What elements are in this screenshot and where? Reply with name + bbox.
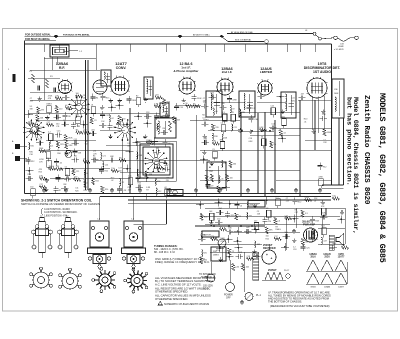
svg-text:C11: C11: [56, 126, 59, 128]
svg-text:.02: .02: [111, 118, 114, 120]
svg-text:150: 150: [217, 218, 220, 220]
svg-text:C17: C17: [47, 122, 50, 124]
svg-text:C25: C25: [128, 176, 131, 178]
svg-text:C30: C30: [83, 130, 86, 132]
svg-text:R15: R15: [106, 97, 109, 99]
svg-text:R12: R12: [211, 93, 214, 95]
svg-text:2.2: 2.2: [252, 108, 255, 110]
svg-text:R15: R15: [241, 112, 244, 114]
svg-text:R25: R25: [60, 144, 63, 146]
svg-text:C9: C9: [211, 186, 213, 188]
svg-text:Zenith Radio: Zenith Radio: [362, 95, 370, 148]
svg-text:R9: R9: [119, 157, 121, 159]
svg-text:L6: L6: [240, 205, 242, 207]
svg-text:R15: R15: [39, 172, 42, 174]
svg-text:.005: .005: [245, 266, 249, 268]
svg-text:BUILT-IN AERIAL: BUILT-IN AERIAL: [235, 39, 252, 42]
svg-text:.002: .002: [127, 190, 131, 192]
svg-text:C25: C25: [57, 131, 60, 133]
svg-text:100: 100: [74, 156, 77, 158]
svg-text:L6: L6: [221, 123, 223, 125]
svg-text:L6: L6: [314, 201, 316, 203]
svg-text:R9: R9: [66, 175, 68, 177]
svg-text:330K: 330K: [327, 132, 332, 134]
svg-text:L6: L6: [278, 220, 280, 222]
svg-text:SHOWN NO. 2-1 SWITCH ORIENTATI: SHOWN NO. 2-1 SWITCH ORIENTATION COIL: [21, 199, 92, 203]
svg-text:but has phono section.: but has phono section.: [345, 97, 353, 186]
svg-text:.05: .05: [221, 179, 224, 181]
svg-text:100: 100: [76, 93, 79, 95]
svg-text:C18: C18: [146, 112, 149, 114]
svg-text:.047: .047: [323, 240, 327, 242]
svg-text:C30: C30: [254, 119, 257, 121]
svg-text:2.2: 2.2: [200, 235, 203, 237]
svg-text:.05: .05: [158, 126, 161, 128]
svg-text:C14: C14: [105, 165, 108, 167]
svg-text:C36: C36: [334, 89, 337, 91]
svg-text:.01: .01: [91, 105, 94, 107]
svg-text:560: 560: [285, 232, 288, 234]
svg-text:C12: C12: [158, 191, 161, 193]
svg-text:OSC: OSC: [209, 171, 214, 173]
svg-text:2525GT: 2525GT: [268, 269, 277, 272]
svg-text:25Z6: 25Z6: [324, 256, 330, 258]
svg-text:R.F.: R.F.: [59, 66, 65, 70]
svg-text:R18: R18: [204, 216, 207, 218]
svg-text:C5: C5: [51, 145, 53, 147]
svg-text:R7: R7: [139, 172, 141, 174]
svg-text:A1: A1: [209, 166, 211, 169]
svg-text:C9: C9: [266, 208, 268, 210]
svg-text:.005: .005: [281, 116, 285, 118]
svg-text:R12: R12: [122, 124, 125, 126]
svg-text:R2: R2: [76, 130, 78, 132]
svg-text:C17: C17: [254, 220, 257, 222]
svg-text:35L6: 35L6: [310, 256, 316, 258]
svg-text:1,800 POSITION - F.M.: 1,800 POSITION - F.M.: [44, 215, 68, 217]
svg-text:R22: R22: [266, 238, 269, 240]
svg-text:56: 56: [261, 137, 263, 139]
svg-text:L6: L6: [65, 105, 67, 107]
svg-text:R12: R12: [323, 166, 326, 168]
svg-text:R5: R5: [274, 144, 276, 146]
svg-text:.01: .01: [86, 173, 89, 175]
svg-text:.047: .047: [165, 165, 169, 167]
svg-text:R18: R18: [315, 220, 318, 222]
svg-text:OFF: OFF: [226, 298, 231, 300]
svg-text:.002: .002: [74, 177, 78, 179]
svg-text:R7: R7: [220, 226, 222, 228]
svg-text:C9: C9: [232, 108, 234, 110]
svg-text:R30: R30: [122, 119, 125, 121]
svg-text:C5: C5: [232, 251, 234, 253]
svg-text:220: 220: [166, 180, 169, 182]
svg-text:150: 150: [40, 127, 43, 129]
svg-text:THE BOTTOM OF CHASSIS.: THE BOTTOM OF CHASSIS.: [268, 299, 302, 303]
svg-text:LIMITER: LIMITER: [260, 70, 273, 74]
svg-text:C25: C25: [271, 106, 274, 108]
svg-text:AT HIGH END OF DIAL: AT HIGH END OF DIAL: [231, 31, 254, 34]
svg-text:.05MF: .05MF: [338, 46, 344, 48]
svg-text:R9: R9: [220, 139, 222, 141]
svg-text:100: 100: [230, 177, 233, 179]
svg-text:.01: .01: [304, 121, 307, 123]
svg-text:SWITCH CLOCKWISE AS VIEWED FRO: SWITCH CLOCKWISE AS VIEWED FROM FRONT OF…: [21, 202, 100, 206]
svg-text:220: 220: [215, 127, 218, 129]
svg-text:C17: C17: [39, 184, 42, 186]
svg-text:R12: R12: [298, 201, 301, 203]
svg-text:C25: C25: [211, 236, 214, 238]
svg-text:.02: .02: [164, 187, 167, 189]
svg-text:560: 560: [233, 164, 236, 166]
svg-text:12AU6: 12AU6: [323, 253, 331, 256]
svg-text:470K: 470K: [305, 197, 310, 199]
svg-text:560: 560: [118, 170, 121, 172]
svg-text:R18: R18: [214, 136, 217, 138]
svg-text:SCHEMATIC CH-8G20 ZENITH CHASS: SCHEMATIC CH-8G20 ZENITH CHASSIS: [164, 303, 210, 306]
svg-text:180K: 180K: [68, 138, 73, 140]
svg-text:C25: C25: [85, 144, 88, 146]
svg-text:PILOT: PILOT: [284, 270, 290, 272]
svg-text:C3: C3: [83, 98, 85, 100]
svg-text:R7: R7: [59, 190, 61, 192]
svg-text:.005: .005: [155, 95, 159, 97]
svg-text:220: 220: [59, 108, 62, 110]
svg-text:.05: .05: [59, 162, 62, 164]
svg-text:C25: C25: [306, 248, 309, 250]
svg-text:220: 220: [268, 221, 271, 223]
svg-text:C30: C30: [29, 154, 32, 156]
svg-text:88 - 108 M.C. F. M.: 88 - 108 M.C. F. M.: [154, 251, 176, 254]
svg-text:R5: R5: [165, 111, 167, 113]
svg-text:.047: .047: [300, 94, 304, 96]
svg-text:C21: C21: [76, 171, 79, 173]
svg-text:L6: L6: [168, 143, 170, 145]
svg-text:R22: R22: [28, 121, 31, 123]
svg-text:.002: .002: [75, 115, 79, 117]
svg-text:C21: C21: [285, 216, 288, 218]
svg-text:330K: 330K: [197, 98, 202, 100]
svg-text:100: 100: [221, 103, 224, 105]
svg-text:R18: R18: [139, 155, 142, 157]
svg-text:.047: .047: [29, 129, 33, 131]
svg-text:56: 56: [160, 117, 162, 119]
svg-text:.047: .047: [246, 227, 250, 229]
svg-text:CONV.: CONV.: [116, 66, 127, 70]
svg-text:1MEG: 1MEG: [275, 229, 281, 231]
svg-text:1MEG: 1MEG: [46, 104, 52, 106]
svg-text:R20: R20: [30, 145, 33, 147]
svg-text:R5: R5: [193, 103, 195, 105]
svg-text:.02: .02: [283, 133, 286, 135]
svg-text:2nd I.F.: 2nd I.F.: [222, 70, 233, 74]
svg-text:560: 560: [203, 234, 206, 236]
svg-text:C18: C18: [293, 249, 296, 251]
svg-text:150: 150: [30, 187, 33, 189]
svg-text:220: 220: [56, 166, 59, 168]
svg-text:C14: C14: [218, 208, 221, 210]
svg-text:R2: R2: [136, 95, 138, 97]
svg-text:C18: C18: [179, 107, 182, 109]
svg-text:R30: R30: [57, 153, 60, 155]
svg-text:1MEG: 1MEG: [49, 166, 55, 168]
svg-text:C3: C3: [212, 149, 214, 151]
svg-text:1MEG: 1MEG: [203, 120, 209, 122]
svg-text:C30: C30: [236, 267, 239, 269]
svg-text:C17: C17: [295, 212, 298, 214]
svg-text:R20: R20: [75, 190, 78, 192]
svg-text:+: +: [271, 257, 273, 261]
svg-text:12BA6: 12BA6: [309, 253, 317, 256]
svg-text:.005: .005: [256, 244, 260, 246]
svg-text:R25: R25: [84, 190, 87, 192]
svg-text:MODELS G881, G882, G883, G884: MODELS G881, G882, G883, G884 & G885: [377, 93, 387, 263]
svg-text:2.2: 2.2: [48, 132, 51, 134]
svg-text:1ST AUDIO: 1ST AUDIO: [313, 70, 331, 74]
svg-text:R20: R20: [105, 189, 108, 191]
svg-text:R4: R4: [93, 155, 95, 157]
svg-text:C3: C3: [316, 232, 318, 234]
svg-text:12BA6: 12BA6: [324, 286, 331, 289]
svg-text:C14: C14: [204, 138, 207, 140]
svg-text:a 3-5 MC/S: a 3-5 MC/S: [334, 49, 344, 51]
svg-text:.05: .05: [215, 111, 218, 113]
svg-text:3.3: 3.3: [305, 213, 308, 215]
svg-text:.05: .05: [64, 93, 67, 95]
svg-text:C-03 POSITION - 910 BROADC.: C-03 POSITION - 910 BROADC.: [44, 211, 78, 214]
svg-text:L6: L6: [65, 166, 67, 168]
svg-text:C12: C12: [271, 124, 274, 126]
svg-text:C3: C3: [94, 120, 96, 122]
svg-text:(MEASURED WITH VACUUM TUBE VOL: (MEASURED WITH VACUUM TUBE VOLTMETER): [270, 304, 330, 308]
svg-text:19T8: 19T8: [338, 253, 344, 256]
svg-text:2.2: 2.2: [122, 182, 125, 184]
svg-text:12AT7: 12AT7: [338, 255, 345, 258]
svg-text:R4: R4: [163, 128, 165, 130]
svg-text:& Phono Amplifier: & Phono Amplifier: [173, 69, 199, 73]
svg-text:330K: 330K: [39, 148, 44, 150]
svg-text:C21: C21: [102, 155, 105, 157]
svg-text:100: 100: [332, 196, 335, 198]
svg-text:R25: R25: [138, 183, 141, 185]
svg-text:C17: C17: [274, 236, 277, 238]
svg-text:C12: C12: [105, 115, 108, 117]
svg-text:R4: R4: [96, 98, 98, 100]
svg-text:C21: C21: [249, 205, 252, 207]
svg-text:35W4: 35W4: [310, 287, 316, 289]
svg-text:56: 56: [186, 103, 188, 105]
svg-text:330K: 330K: [238, 252, 243, 254]
svg-text:R12: R12: [31, 161, 34, 163]
svg-text:C18: C18: [46, 150, 49, 152]
svg-text:12AT7: 12AT7: [338, 286, 345, 289]
svg-text:470K: 470K: [318, 177, 323, 179]
svg-text:C-02 POSITION - RADIO: C-02 POSITION - RADIO: [44, 208, 70, 211]
svg-text:R20: R20: [203, 253, 206, 255]
svg-text:C17: C17: [223, 163, 226, 165]
svg-text:C7: C7: [113, 127, 115, 129]
svg-text:3.3: 3.3: [222, 112, 225, 114]
svg-text:R20: R20: [167, 101, 170, 103]
svg-text:PL-1: PL-1: [256, 295, 262, 297]
svg-text:C12: C12: [74, 139, 77, 141]
svg-text:CHASSIS 8G20: CHASSIS 8G20: [362, 152, 370, 205]
svg-text:ATTACH TO WALL: ATTACH TO WALL: [193, 33, 211, 36]
svg-text:150: 150: [111, 168, 114, 170]
svg-text:C9: C9: [83, 159, 85, 161]
svg-text:RECTIFIER: RECTIFIER: [263, 247, 276, 250]
svg-text:R7: R7: [146, 190, 148, 192]
svg-text:R9: R9: [68, 116, 70, 118]
svg-text:R22: R22: [105, 171, 108, 173]
svg-text:100K: 100K: [334, 93, 339, 95]
svg-text:+: +: [266, 253, 268, 257]
svg-text:.002: .002: [154, 160, 158, 162]
svg-text:R7: R7: [63, 120, 65, 122]
svg-text:C3: C3: [86, 183, 88, 185]
svg-text:C21: C21: [233, 127, 236, 129]
svg-text:.002: .002: [248, 215, 252, 217]
svg-text:1MEG: 1MEG: [213, 255, 219, 257]
svg-text:OTHERWISE SPECIFIED.: OTHERWISE SPECIFIED.: [155, 297, 188, 301]
svg-text:R9: R9: [239, 216, 241, 218]
svg-text:FREQ. RANGE I.F. FREQUENCY 10: FREQ. RANGE I.F. FREQUENCY 10.7 M.C.: [155, 260, 210, 264]
svg-text:C11: C11: [315, 239, 318, 241]
svg-text:R18: R18: [28, 174, 31, 176]
svg-text:.005: .005: [91, 129, 95, 131]
svg-text:R20: R20: [291, 100, 294, 102]
svg-text:C30: C30: [157, 181, 160, 183]
svg-text:.02: .02: [111, 180, 114, 182]
svg-text:POWER: POWER: [224, 294, 233, 296]
svg-text:C18: C18: [247, 256, 250, 258]
svg-text:R7: R7: [259, 92, 261, 94]
svg-text:R22: R22: [95, 181, 98, 183]
svg-text:470K: 470K: [232, 99, 237, 101]
svg-text:R22: R22: [321, 226, 324, 228]
svg-text:C11: C11: [156, 165, 159, 167]
